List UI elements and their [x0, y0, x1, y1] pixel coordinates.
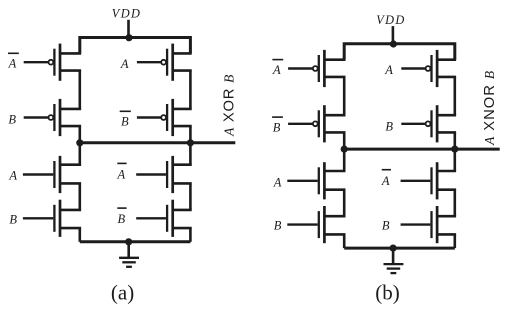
wire ground rail: [80, 240, 191, 243]
svg-text:B: B: [274, 219, 282, 233]
svg-text:A: A: [381, 174, 390, 188]
transistor M2 PMOS gate B: [8, 99, 81, 136]
wire: [79, 126, 82, 143]
svg-text:B: B: [9, 212, 17, 226]
wire: [343, 149, 346, 171]
svg-text:A: A: [8, 169, 17, 183]
transistor M6 NMOS gate B: [9, 200, 81, 237]
wire: [453, 190, 456, 217]
transistor M14 NMOS gate B: [274, 206, 346, 243]
svg-text:B: B: [118, 212, 126, 226]
svg-text:VDD: VDD: [376, 13, 405, 27]
wire VDD rail: [344, 44, 455, 60]
wire: [189, 228, 192, 242]
wire ground rail: [344, 247, 455, 250]
svg-text:A: A: [384, 63, 393, 77]
svg-text:(b): (b): [375, 280, 400, 304]
wire: [343, 190, 346, 217]
svg-text:B: B: [273, 120, 281, 134]
wire output node: [344, 148, 500, 151]
svg-text:B: B: [121, 115, 129, 129]
junction dot output left: [341, 146, 348, 153]
wire: [189, 143, 192, 165]
svg-text:B: B: [8, 113, 16, 127]
wire: [189, 126, 192, 143]
transistor M9 PMOS gate A-bar: [272, 50, 346, 87]
transistor M4 PMOS gate B-bar: [120, 99, 192, 136]
junction dot output left: [76, 139, 83, 146]
junction dot VDD node: [125, 34, 132, 41]
transistor M8 NMOS gate B-bar: [117, 200, 191, 237]
transistor M5 NMOS gate A: [8, 156, 81, 193]
svg-text:A: A: [8, 57, 17, 71]
junction dot output right: [187, 139, 194, 146]
junction dot ground node: [125, 238, 132, 245]
svg-text:A XNOR B: A XNOR B: [482, 70, 498, 146]
svg-text:B: B: [385, 119, 393, 133]
wire: [189, 71, 192, 109]
transistor M11 PMOS gate A: [384, 50, 456, 87]
transistor M16 NMOS gate B: [382, 206, 456, 243]
wire: [453, 149, 456, 171]
wire: [343, 77, 346, 115]
wire: [79, 183, 82, 210]
junction dot VDD node: [390, 40, 397, 47]
transistor M3 PMOS gate A: [120, 44, 192, 81]
wire VDD stub: [392, 26, 395, 44]
ground: [119, 242, 139, 267]
ground: [384, 248, 404, 273]
wire: [79, 143, 82, 165]
wire: [189, 183, 192, 210]
svg-text:A: A: [272, 63, 281, 77]
junction dot output right: [451, 146, 458, 153]
svg-text:A: A: [120, 57, 129, 71]
transistor M12 PMOS gate B: [385, 105, 456, 142]
wire: [79, 71, 82, 109]
net label output: [482, 70, 498, 146]
wire VDD stub: [127, 20, 130, 38]
transistor M1 PMOS gate A-bar: [8, 44, 82, 81]
svg-text:A XOR B: A XOR B: [221, 74, 237, 137]
junction dot ground node: [390, 245, 397, 252]
svg-text:(a): (a): [111, 280, 134, 304]
transistor M10 PMOS gate B-bar: [272, 105, 345, 142]
wire output node: [80, 141, 236, 144]
svg-text:A: A: [273, 176, 282, 190]
transistor M7 NMOS gate A-bar: [117, 156, 192, 193]
svg-text:A: A: [117, 168, 126, 182]
svg-text:B: B: [382, 219, 390, 233]
wire: [79, 228, 82, 242]
svg-text:VDD: VDD: [112, 7, 141, 21]
transistor M15 NMOS gate A-bar: [381, 162, 456, 199]
net label output: [221, 74, 237, 137]
wire: [343, 234, 346, 248]
wire: [453, 234, 456, 248]
wire: [343, 132, 346, 149]
transistor M13 NMOS gate A: [273, 162, 346, 199]
wire: [453, 77, 456, 115]
wire VDD rail: [80, 38, 191, 54]
wire: [453, 132, 456, 149]
